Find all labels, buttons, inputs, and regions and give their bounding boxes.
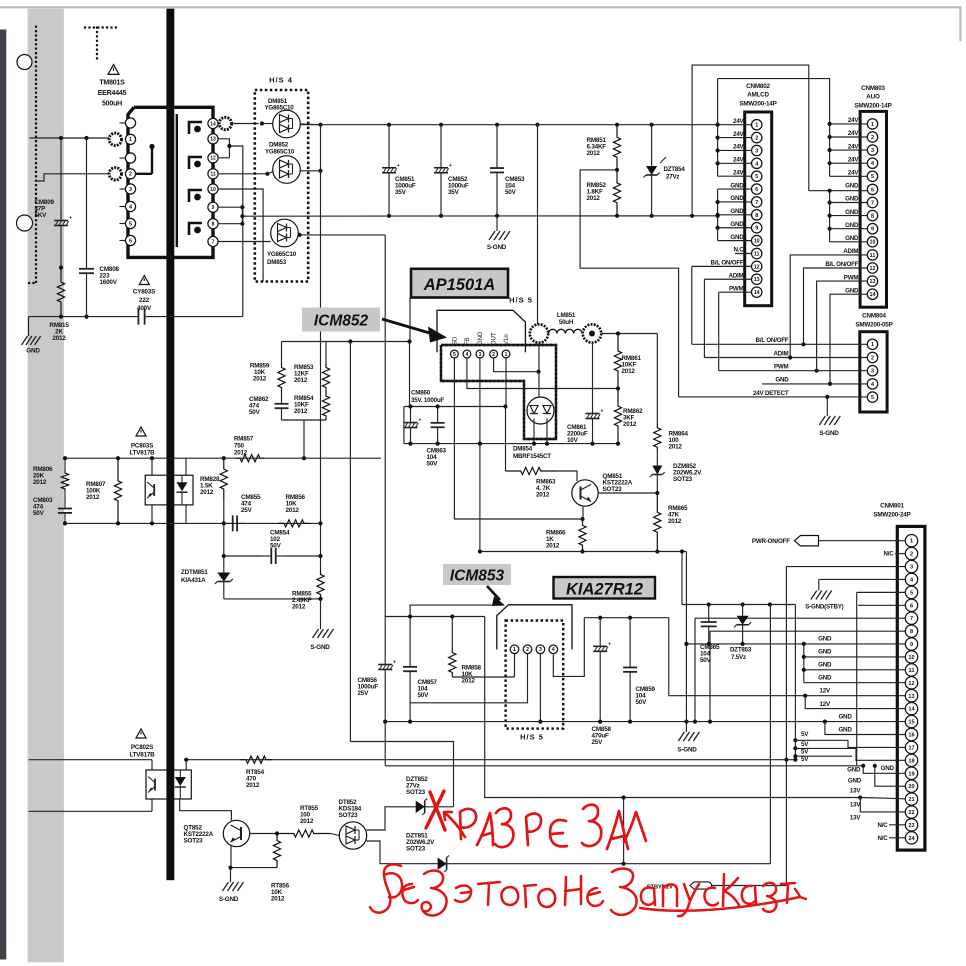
svg-text:11: 11: [870, 253, 876, 259]
svg-text:13: 13: [754, 277, 760, 283]
capacitor CM855: [224, 522, 233, 524]
transformer primary pin 2: [125, 169, 135, 179]
transformer core line: [176, 114, 178, 247]
svg-text:YG865C10: YG865C10: [265, 149, 295, 156]
ground S-GND below CM853: [496, 216, 498, 231]
zener DZT851: [433, 863, 438, 865]
svg-text:8: 8: [755, 213, 758, 219]
connector CNM803 box: [860, 111, 886, 307]
svg-text:CNM804: CNM804: [862, 313, 886, 320]
transformer primary pin 6: [120, 240, 126, 242]
IC ICM853 body: [497, 605, 572, 650]
CNM804 PWM row wire: [719, 370, 868, 372]
svg-text:DZT853: DZT853: [730, 647, 752, 654]
arrow ICM853: [487, 586, 500, 600]
wire pin6 stub: [858, 604, 905, 606]
ICM853 pin 4: [549, 645, 558, 654]
CNM803 GND feed: [809, 190, 868, 192]
svg-text:2012: 2012: [623, 421, 637, 428]
ground S-GND QT852: [230, 868, 232, 882]
ICM853 pin 3: [536, 645, 545, 654]
CNM801 pin 20: [905, 780, 917, 792]
red handwriting ne zapuskaetsya: [565, 876, 581, 905]
transformer primary pin 1: [125, 134, 135, 144]
svg-text:20: 20: [908, 784, 914, 790]
wire GND row pin9: [686, 643, 905, 645]
svg-text:14: 14: [870, 292, 876, 298]
CNM801 pin 6: [905, 599, 917, 611]
svg-text:H/S 4: H/S 4: [269, 76, 293, 85]
wire pin20: [875, 766, 906, 786]
CNM801 pin 23: [905, 819, 917, 831]
svg-text:GND: GND: [845, 183, 859, 190]
resistor RM861: [614, 334, 621, 389]
svg-text:222: 222: [139, 297, 150, 304]
svg-text:1: 1: [505, 352, 508, 358]
transformer TM801S outline: [128, 107, 213, 257]
svg-text:50V: 50V: [270, 543, 282, 550]
svg-text:LTV817B: LTV817B: [129, 752, 155, 759]
wire long gnd line: [385, 765, 863, 767]
svg-text:3: 3: [755, 148, 758, 154]
optocoupler PC802S warning: [136, 729, 146, 738]
red X cut mark: [430, 792, 445, 830]
svg-text:2: 2: [871, 355, 874, 361]
svg-text:OUT: OUT: [492, 332, 498, 345]
svg-text:2012: 2012: [294, 377, 308, 384]
svg-text:7: 7: [910, 616, 913, 622]
ICM853 pin 2: [523, 645, 532, 654]
wire pin14 to DM851: [218, 123, 219, 125]
wire DZT851 out row: [451, 863, 770, 865]
diode DM853: [271, 219, 299, 247]
wire 13V input rail: [385, 616, 485, 618]
optocoupler PC803S: [151, 458, 153, 475]
CNM803 24V feed: [829, 124, 831, 176]
svg-text:16: 16: [908, 733, 914, 739]
wire 24V rail: [300, 124, 717, 126]
wire pin8 gnd: [710, 630, 905, 632]
CNM801 pin 5: [905, 586, 917, 598]
svg-text:2012: 2012: [300, 818, 314, 825]
resistor RM857: [236, 455, 264, 462]
svg-text:24V: 24V: [848, 156, 859, 163]
transformer secondary pin 8: [208, 219, 218, 229]
wire opto led return: [29, 810, 152, 812]
svg-text:DM854: DM854: [513, 446, 533, 453]
wire pin5: [857, 591, 906, 593]
wire gnd rail lower: [385, 721, 825, 723]
svg-text:3: 3: [478, 352, 481, 358]
svg-text:PWM: PWM: [729, 285, 744, 292]
svg-text:15: 15: [908, 720, 914, 726]
svg-text:RM857: RM857: [234, 436, 254, 443]
svg-text:2012: 2012: [462, 678, 476, 685]
svg-text:GND: GND: [730, 234, 744, 241]
svg-text:19: 19: [908, 771, 914, 777]
CNM801 pin 4: [905, 573, 917, 585]
svg-text:2012: 2012: [587, 195, 601, 202]
resistor RM862: [614, 389, 621, 444]
ICM853 pin 1: [510, 645, 519, 654]
svg-text:SD: SD: [452, 336, 458, 345]
svg-text:50V: 50V: [636, 699, 648, 706]
svg-text:14: 14: [908, 707, 915, 713]
CNM804 GND row wire: [762, 383, 867, 385]
svg-text:10: 10: [908, 655, 914, 661]
svg-text:GND: GND: [838, 727, 852, 734]
svg-text:2012: 2012: [546, 543, 560, 550]
svg-text:H/S 5: H/S 5: [520, 733, 544, 742]
CNM801 pin 13: [905, 690, 917, 702]
resistor RT856: [273, 834, 280, 868]
svg-text:4: 4: [871, 161, 874, 167]
svg-text:CNM801: CNM801: [880, 503, 904, 510]
svg-text:KIA431A: KIA431A: [181, 577, 206, 584]
svg-text:25V: 25V: [592, 739, 604, 746]
CNM804 24V DETECT row wire: [679, 396, 868, 398]
svg-text:SOT23: SOT23: [339, 812, 359, 819]
svg-text:6: 6: [755, 187, 758, 193]
svg-text:6: 6: [910, 603, 913, 609]
CNM801 pin 7: [905, 612, 917, 624]
svg-text:GND: GND: [478, 331, 484, 345]
svg-text:SOT23: SOT23: [406, 789, 426, 796]
wire pin11 to DM852: [218, 173, 267, 175]
capacitor CM862: [281, 392, 283, 404]
svg-text:MBRF1545CT: MBRF1545CT: [513, 453, 551, 460]
svg-text:24V: 24V: [733, 131, 744, 138]
resistor RM853: [322, 363, 329, 392]
svg-text:V1n: V1n: [504, 334, 510, 345]
heatsink dotted box ICM852: [441, 345, 556, 439]
resistor RM864: [654, 424, 661, 451]
svg-text:18: 18: [908, 758, 914, 764]
svg-text:+: +: [69, 216, 72, 222]
CNM801 pin 3: [905, 560, 917, 572]
capacitor CM851: [388, 125, 390, 168]
svg-text:9: 9: [910, 642, 913, 648]
resistor RM855: [317, 570, 324, 599]
svg-text:2012: 2012: [200, 489, 214, 496]
label ICM852: [302, 308, 380, 332]
svg-text:2012: 2012: [246, 782, 260, 789]
svg-text:9: 9: [212, 205, 215, 211]
output ring 1: [530, 324, 548, 342]
svg-text:GND: GND: [730, 208, 744, 215]
capacitor CM865: [708, 605, 710, 623]
svg-text:PC802S: PC802S: [131, 744, 153, 751]
wire pin16 step: [825, 722, 905, 735]
svg-text:2: 2: [871, 135, 874, 141]
transformer primary pin 5: [120, 223, 126, 225]
wire pin4 FB: [467, 358, 618, 389]
svg-text:24V: 24V: [733, 169, 744, 176]
zener DZT853: [742, 605, 744, 616]
ground GND left: [28, 317, 30, 336]
dual diode DT852: [331, 834, 340, 836]
svg-text:2012: 2012: [536, 492, 550, 499]
svg-text:11: 11: [754, 251, 760, 257]
svg-text:3: 3: [129, 187, 132, 193]
svg-text:SMW200-05P: SMW200-05P: [855, 322, 892, 329]
svg-text:SMW200-14P: SMW200-14P: [739, 101, 776, 108]
svg-text:1: 1: [871, 122, 874, 128]
wire DM852 out: [300, 170, 320, 172]
ground S-GND right: [678, 732, 684, 741]
svg-text:+: +: [608, 641, 611, 647]
svg-text:AUO: AUO: [866, 94, 880, 101]
wire label stub: [409, 298, 411, 342]
diode DM851: [273, 110, 301, 138]
svg-text:50V: 50V: [418, 692, 430, 699]
wire pin21 13V: [860, 798, 905, 799]
ground S-GND CNM804: [826, 397, 828, 416]
capacitor CM852: [440, 125, 442, 168]
arrow ICM852: [382, 319, 433, 334]
svg-text:24V: 24V: [848, 117, 859, 124]
svg-text:24: 24: [908, 836, 915, 842]
capacitor CM854 row: [224, 555, 262, 557]
capacitor CM859: [629, 618, 631, 668]
CNM801 pin 22: [905, 806, 917, 818]
wire ring1 to DM854: [538, 343, 540, 397]
svg-text:50V: 50V: [249, 409, 261, 416]
ICM852 pin 1 V1n: [502, 350, 510, 358]
connector CNM801 box: [897, 526, 925, 850]
transformer secondary pin 11: [208, 169, 218, 179]
svg-text:KIA27R12: KIA27R12: [566, 581, 643, 599]
svg-text:10: 10: [870, 240, 876, 246]
svg-text:22: 22: [908, 810, 914, 816]
svg-text:50V: 50V: [505, 189, 517, 196]
partial winding circle B: [17, 215, 33, 231]
svg-text:+: +: [601, 409, 604, 415]
svg-text:13: 13: [210, 137, 216, 143]
svg-text:GND: GND: [818, 649, 832, 656]
wire pin19 gnd: [863, 766, 905, 774]
svg-text:GND: GND: [847, 766, 861, 773]
secondary winding hooks: [189, 122, 202, 134]
output ring 2: [583, 324, 601, 342]
svg-text:DM853: DM853: [267, 259, 287, 266]
page split heavy bar: [166, 9, 174, 881]
wire divider bottom: [282, 419, 327, 421]
svg-text:PWR-ON/OFF: PWR-ON/OFF: [752, 538, 790, 545]
wire 12V to pin13 riser: [669, 618, 905, 696]
svg-text:N/C: N/C: [883, 551, 894, 558]
transformer secondary pin 7: [208, 236, 218, 246]
ICM852 pin 4 FB: [463, 350, 471, 358]
svg-text:2012: 2012: [286, 507, 300, 514]
svg-text:17: 17: [908, 745, 914, 751]
svg-text:GND: GND: [845, 235, 859, 242]
page top border line: [0, 6, 962, 8]
capacitor CM803: [64, 498, 66, 509]
CNM801 pin 19: [905, 767, 917, 779]
wire ZDTM851 bottom row: [224, 598, 321, 600]
svg-text:14: 14: [210, 121, 216, 127]
wire DM851 out: [300, 123, 320, 126]
svg-text:7: 7: [755, 200, 758, 206]
svg-text:12: 12: [210, 156, 216, 162]
svg-text:5KV: 5KV: [35, 212, 48, 219]
resistor RM866: [579, 519, 586, 552]
svg-text:GND: GND: [845, 209, 859, 216]
wire QM851 emitter: [582, 506, 584, 520]
svg-text:1600V: 1600V: [100, 279, 118, 286]
svg-text:750: 750: [234, 443, 244, 450]
svg-text:12V: 12V: [819, 701, 830, 708]
heatsink H/S 4 dotted box: [255, 90, 308, 282]
wire sense bottom row: [63, 522, 320, 524]
jumper ring pin2: [109, 168, 121, 180]
svg-text:10V: 10V: [567, 437, 579, 444]
zener DZT854: [651, 125, 653, 161]
wire gnd rail to pin15: [825, 721, 905, 723]
transformer primary pin (nc): [120, 122, 126, 124]
bottom primary rail wire: [29, 316, 139, 318]
label AP1501A box: [411, 269, 508, 298]
capacitor CY803S: [139, 276, 149, 285]
svg-text:24V: 24V: [733, 157, 744, 164]
svg-text:2012: 2012: [253, 376, 267, 383]
svg-text:S-GND(STBY): S-GND(STBY): [805, 604, 843, 611]
svg-text:+: +: [419, 418, 422, 424]
zener DZT852: [412, 806, 415, 808]
svg-text:1: 1: [910, 539, 913, 545]
wire 12V top: [601, 333, 657, 335]
svg-text:GND: GND: [730, 195, 744, 202]
svg-text:5: 5: [910, 590, 913, 596]
svg-text:LTV817B: LTV817B: [129, 450, 155, 457]
svg-text:5V: 5V: [801, 756, 809, 763]
svg-text:2012: 2012: [234, 450, 248, 457]
wire opto led row: [29, 759, 152, 761]
CNM801 pin 9: [905, 638, 917, 650]
capacitor CM863: [437, 407, 439, 423]
svg-text:4: 4: [465, 352, 468, 358]
svg-text:SOT23: SOT23: [406, 846, 426, 853]
wire pin3 5VSTBY: [786, 566, 905, 568]
capacitor CM808: [86, 138, 88, 262]
svg-text:ADIM: ADIM: [728, 272, 743, 279]
svg-text:SMW200-24P: SMW200-24P: [873, 512, 910, 519]
wire 5V bundle: [794, 605, 796, 760]
svg-text:13: 13: [870, 279, 876, 285]
svg-text:8: 8: [871, 214, 874, 220]
CNM802 GND feed: [717, 189, 719, 241]
wire pin7 to DM853: [218, 241, 271, 243]
svg-text:2: 2: [910, 552, 913, 558]
CNM803 ADIM wire: [790, 255, 867, 358]
svg-text:CNM802: CNM802: [746, 83, 770, 90]
wire ICM853 pin2 row: [410, 654, 527, 703]
svg-text:3: 3: [871, 369, 874, 375]
svg-text:GND: GND: [818, 662, 832, 669]
svg-text:35V. 1000uF: 35V. 1000uF: [411, 397, 444, 404]
svg-text:5: 5: [871, 395, 874, 401]
resistor RM865: [654, 493, 661, 552]
svg-text:YG865C10: YG865C10: [267, 251, 297, 258]
svg-text:+: +: [397, 163, 400, 169]
capacitor CM861: [592, 343, 594, 400]
svg-text:5: 5: [755, 174, 758, 180]
svg-text:10: 10: [210, 187, 216, 193]
svg-text:5: 5: [871, 174, 874, 180]
svg-text:24V: 24V: [733, 144, 744, 151]
capacitor CM856: [384, 617, 386, 657]
wire CM865 rail feed: [681, 552, 683, 605]
svg-text:GND: GND: [845, 287, 859, 294]
svg-text:11: 11: [909, 668, 915, 674]
svg-text:4: 4: [552, 647, 555, 653]
wire pin7 gnd: [695, 617, 905, 619]
svg-text:3: 3: [539, 647, 542, 653]
svg-text:2012: 2012: [294, 408, 308, 415]
wire dzt852 feed: [350, 742, 453, 807]
svg-text:35V: 35V: [448, 189, 460, 196]
svg-text:50V: 50V: [700, 657, 712, 664]
wire DM853 out to ICM853 rail: [298, 234, 385, 236]
CNM801 pin 10: [905, 651, 917, 663]
svg-text:ICM853: ICM853: [450, 568, 505, 585]
svg-text:PC803S: PC803S: [131, 443, 153, 450]
left gray column highlight: [28, 9, 64, 963]
dotted block corner top: [96, 27, 98, 61]
dotted block border left: [35, 26, 37, 283]
svg-text:13V: 13V: [850, 814, 861, 821]
svg-text:ZDTM851: ZDTM851: [181, 569, 208, 576]
svg-text:DZT854: DZT854: [664, 166, 686, 173]
primary bracket: [151, 147, 153, 174]
red handwriting bez etogo: [370, 864, 402, 912]
wire 24V detect run: [580, 170, 679, 397]
svg-text:GND: GND: [838, 714, 852, 721]
wire QT852 base: [250, 833, 278, 835]
svg-text:GND: GND: [730, 182, 744, 189]
zener ZDTM851: [223, 569, 225, 573]
svg-text:GND: GND: [881, 765, 895, 772]
svg-text:CNM803: CNM803: [861, 85, 885, 92]
svg-text:SMW200-14P: SMW200-14P: [854, 103, 891, 110]
svg-text:DM852: DM852: [269, 142, 289, 149]
wire 13V drop: [485, 617, 861, 798]
svg-text:8: 8: [910, 629, 913, 635]
svg-text:2: 2: [492, 352, 495, 358]
transistor QT852: [223, 820, 249, 846]
svg-text:CM860: CM860: [411, 390, 431, 397]
wire AP bottom rail: [404, 443, 618, 445]
svg-text:N/C: N/C: [877, 835, 888, 842]
svg-text:24V: 24V: [848, 170, 859, 177]
svg-text:LM851: LM851: [557, 312, 576, 319]
capacitor CM853: [496, 125, 498, 168]
wire ICM853 pin4 jog: [553, 618, 584, 677]
svg-text:7.5Vz: 7.5Vz: [731, 654, 746, 661]
svg-text:B/L ON/OFF: B/L ON/OFF: [756, 337, 789, 344]
resistor RM858: [451, 617, 453, 649]
transformer secondary pin 9: [208, 202, 218, 212]
resistor RM863: [505, 407, 507, 472]
svg-text:SOT23: SOT23: [673, 476, 693, 483]
svg-text:+: +: [449, 163, 452, 169]
red handwriting RAZREZAL: [460, 809, 476, 839]
svg-text:3: 3: [871, 148, 874, 154]
connector CNM804 box: [860, 332, 887, 412]
svg-text:AP1501A: AP1501A: [423, 276, 496, 294]
svg-text:2: 2: [526, 647, 529, 653]
